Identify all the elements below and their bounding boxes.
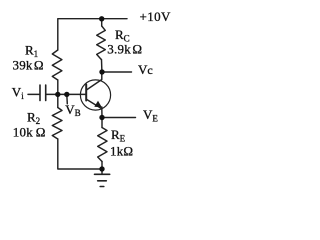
- svg-text:10k Ω: 10k Ω: [13, 125, 46, 140]
- wire base lead: [46, 93, 86, 95]
- wire left branch bottom: [58, 139, 102, 169]
- wire input lead: [28, 93, 40, 95]
- svg-text:VB: VB: [65, 102, 80, 118]
- svg-text:1kΩ: 1kΩ: [110, 144, 133, 159]
- node ground junction: [99, 166, 104, 171]
- svg-text:Vc: Vc: [138, 62, 153, 77]
- wire VB stub: [66, 97, 68, 104]
- wire R1 to base node: [57, 80, 59, 94]
- svg-text:VE: VE: [143, 107, 158, 124]
- wire RC to Vc node: [101, 60, 103, 73]
- node VE: [99, 115, 104, 120]
- wire VE node to RE: [101, 118, 103, 128]
- node Vc: [99, 69, 104, 74]
- capacitor C input: [39, 85, 41, 101]
- ground: [101, 169, 103, 174]
- wire RE bottom lead: [101, 162, 103, 170]
- svg-text:+10V: +10V: [140, 9, 172, 24]
- wire RC top lead: [101, 19, 103, 26]
- node base right: [64, 92, 69, 97]
- wire collector segment: [86, 72, 101, 90]
- wire base node to R2: [57, 94, 59, 107]
- wire Vc lead: [102, 71, 132, 73]
- resistor R1: [52, 50, 62, 80]
- svg-text:3.9k Ω: 3.9k Ω: [107, 42, 142, 57]
- resistor RE: [98, 128, 107, 162]
- wire emitter to VE node: [101, 107, 103, 118]
- resistor RC: [97, 26, 106, 60]
- svg-text:39k Ω: 39k Ω: [13, 57, 44, 72]
- wire top rail: [58, 19, 127, 50]
- node base left: [55, 92, 60, 97]
- svg-text:Vi: Vi: [12, 85, 24, 102]
- wire VE lead: [102, 117, 136, 119]
- transistor Q1: [80, 80, 110, 110]
- resistor R2: [52, 108, 62, 140]
- node +10V junction: [99, 16, 104, 21]
- svg-text:RE: RE: [111, 127, 126, 144]
